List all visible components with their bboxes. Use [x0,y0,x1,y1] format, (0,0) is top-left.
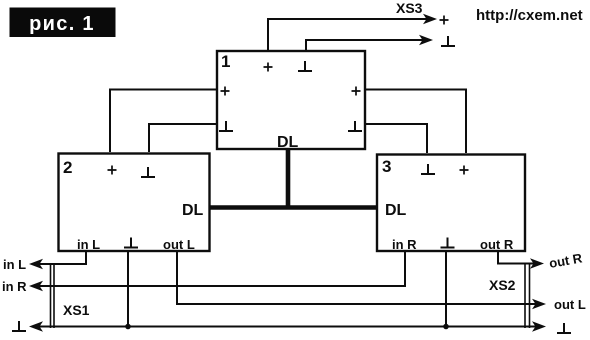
svg-text:2: 2 [63,158,72,177]
site caption cxem.net [476,7,583,24]
block 1 [217,51,365,149]
block 2 top + pin [108,166,117,175]
svg-text:1: 1 [221,52,230,71]
block 3 top + pin [460,166,469,175]
block 2 top ground pin [141,167,155,177]
wire block1 left ground to block2 ground [149,124,217,152]
wire block3 in R to XS1 in R [29,250,405,291]
svg-text:рис. 1: рис. 1 [29,13,95,35]
svg-text:XS1: XS1 [63,302,90,318]
block 1 top ground pin [298,61,312,71]
block 3 [377,155,525,252]
block 2 [59,154,210,252]
svg-text:DL: DL [182,202,204,219]
XS3 + terminal [440,16,449,25]
svg-text:DL: DL [277,134,299,151]
block 1 left ground pin [219,121,233,131]
block 1 top + pin [264,63,273,72]
wire block3 out R to XS2 out R [498,250,544,269]
svg-text:http://cxem.net: http://cxem.net [476,7,583,24]
svg-text:3: 3 [382,157,391,176]
DL bus wire block1 to bus (thick) [286,149,291,210]
wire block1 + to XS3 + [268,14,437,51]
DL bus wire block2 to block3 (thick) [210,205,378,210]
wire block1 right + to block3 + [365,90,466,154]
left ground terminal [12,321,26,331]
svg-text:out R: out R [480,237,514,252]
wire block1 left + to block2 + [110,90,217,153]
right ground terminal [557,323,571,333]
figure caption "рис. 1" [10,8,116,38]
block 3 top ground pin [421,164,435,174]
wire block2 in L to XS1 in L [29,250,86,269]
wire block1 ground to XS3 ground [306,35,433,51]
svg-text:DL: DL [385,202,407,219]
ground bus wire [29,321,546,331]
svg-text:in L: in L [3,257,26,272]
block 1 right ground pin [348,121,362,131]
wire block3 ground to ground bus [443,250,449,329]
svg-text:in R: in R [392,237,417,252]
XS3 ground terminal [441,36,455,46]
connector XS2 body [525,263,530,329]
wire block2 ground to ground bus [125,250,131,329]
svg-text:in L: in L [77,237,100,252]
svg-text:XS3: XS3 [396,0,423,16]
block 1 right + pin [352,87,361,96]
wire block1 right ground to block3 ground [365,124,427,153]
svg-text:in R: in R [2,279,27,294]
block 3 bottom ground pin [441,238,455,248]
svg-text:out L: out L [554,297,586,312]
wire block2 out L to XS2 out L [177,250,546,309]
connector XS1 body [51,263,55,328]
block 1 left + pin [221,87,230,96]
block 2 bottom ground pin [124,238,138,248]
svg-text:out L: out L [163,237,195,252]
svg-text:XS2: XS2 [489,277,516,293]
